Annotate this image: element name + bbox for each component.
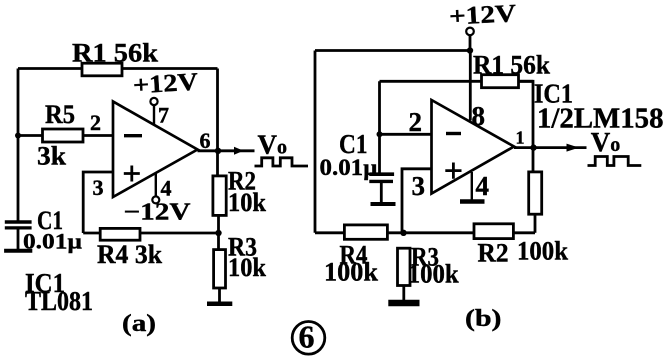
svg-text:2: 2 [90,110,101,135]
capacitor C1 (a) plate 2 [5,226,32,229]
svg-text:R5: R5 [45,100,75,129]
svg-text:TL081: TL081 [25,286,93,316]
wire: pin 3 to bottom junction (b) [402,169,432,233]
wire: pin 8 supply line (b) [469,51,472,121]
figure number circle 6 [292,322,325,355]
resistor R3 (b) [398,248,411,285]
node: R3 junction (b) [400,230,406,236]
resistor R1 (a) [82,63,122,76]
svg-text:+12V: +12V [132,69,199,100]
wire: C1 to ground (a) [17,230,20,250]
op-amp U1 TL081 triangle (a) [113,102,198,198]
capacitor C1 (a) plate 1 [5,220,32,223]
op-amp U2 LM158 triangle (b) [432,100,515,194]
svg-text:R1 56k: R1 56k [72,39,159,68]
svg-text:10k: 10k [228,188,266,217]
arrow on output (b) [567,144,580,152]
svg-text:100k: 100k [408,260,460,289]
svg-text:R1 56k: R1 56k [473,51,551,80]
resistor R4 (a) [100,228,140,240]
wire: bottom row R4 (a) [83,232,218,235]
pin 7 supply line (a) [153,105,155,125]
capacitor C1 (b) plate 2 [369,180,393,183]
svg-text:3: 3 [412,171,426,201]
svg-text:4: 4 [161,175,172,200]
node: junction of R5 and left rail (a) [15,133,21,139]
wire: output pin 6 (a) [198,149,255,152]
plus sign non-inverting input (a) [124,166,140,182]
resistor R3 (a) [214,250,226,288]
resistor R4 (b) [344,225,387,239]
node: R2/R3/R4 junction (a) [215,230,221,236]
svg-text:(b): (b) [465,306,502,332]
square wave symbol (b) [588,157,642,166]
pin 4 supply line (a) [155,174,157,197]
wire: pin 3 to bottom row (a) [83,172,113,233]
wire: circuit (a) left vertical rail [17,69,20,222]
svg-text:10k: 10k [228,253,266,282]
node: output junction (b) [530,144,536,150]
svg-text:4: 4 [476,171,490,201]
wire: top rail (b) [315,49,470,52]
wire: right rail from R1 to output junction (b) [519,81,534,172]
svg-text:0.01µ: 0.01µ [320,155,378,180]
wire: R2 to bottom junction (a) [217,215,220,233]
resistor R5 (a) [43,129,84,142]
resistor R1 (b) [482,75,519,88]
wire: R3 to ground (a) [218,288,221,302]
svg-text:3: 3 [93,175,104,200]
arrow on output (a) [234,147,244,155]
minus sign inverting input (b) [446,132,461,135]
wire: pin 2 row (b) [380,133,432,136]
svg-text:3k: 3k [37,142,67,171]
resistor: vertical divider resistor (b) [529,172,542,214]
ground under C1 (b) [371,202,396,206]
wire: divider resistor to R2 (b) [534,214,537,233]
node: pin 2 junction (b) [377,131,383,137]
pin 4 line to ground (b) [471,172,473,200]
node: supply junction (b) [467,47,473,53]
square wave symbol (a) [255,158,309,166]
wire: bottom row (b) [315,231,535,234]
svg-text:−12V: −12V [124,200,192,226]
wire: R5 row to op-amp pin 2 (a) [18,134,113,137]
svg-text:7: 7 [158,103,169,128]
svg-text:R2: R2 [478,239,509,268]
pin 7 supply circle (a) [150,98,157,105]
wire: pin 2 vertical to C1 (b) [378,81,381,172]
ground under R3 (b) [388,300,419,307]
wire: feedback row through R1 (b) [380,80,534,83]
svg-text:2: 2 [409,107,423,137]
svg-text:6: 6 [200,128,211,153]
svg-text:1: 1 [516,128,525,148]
wire: output pin 1 (b) [514,146,587,149]
ground under C1 (a) [4,249,32,253]
wire: left vertical rail (b) [314,51,317,233]
wire: right vertical rail (a) [216,69,219,177]
wire: junction to R3 (a) [217,233,220,250]
pin 4 supply circle (a) [152,196,159,203]
svg-text:(a): (a) [122,311,156,337]
svg-text:Vo: Vo [258,130,288,160]
ground under R3 (a) [207,301,232,306]
wire: supply drop (b) [469,35,472,50]
plus sign non-inverting input (b) [445,163,461,179]
minus sign inverting input (a) [124,134,142,137]
svg-text:+12V: +12V [448,0,516,30]
node: output junction (a) [215,148,221,154]
capacitor C1 (b) plate 1 [369,172,394,176]
wire: C1 to ground (b) [380,183,383,202]
wire: circuit (a) top feedback rail [18,67,218,70]
svg-text:0.01µ: 0.01µ [23,229,82,254]
supply terminal circle (b) [466,28,474,36]
svg-text:100k: 100k [517,237,569,266]
svg-text:6: 6 [299,319,315,355]
svg-text:R4 3k: R4 3k [97,240,163,269]
resistor R2 (a) [213,176,226,216]
resistor R2 (b) [474,224,513,239]
svg-text:100k: 100k [324,258,379,287]
ground under pin 4 (b) [460,199,485,204]
wire: R3 to ground (b) [402,286,405,301]
